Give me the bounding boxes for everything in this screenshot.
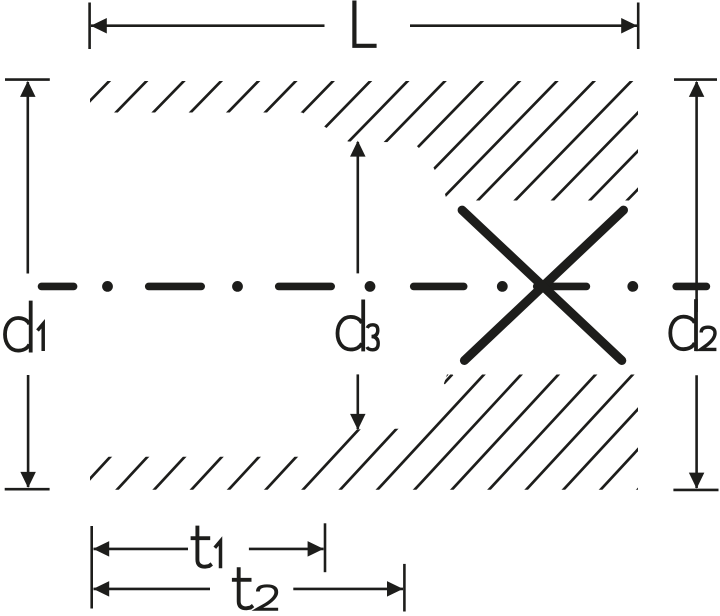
dimension t1: right extension tick <box>324 523 327 572</box>
dimension d2: bottom extension tick <box>673 489 718 492</box>
label L <box>354 1 376 46</box>
dimension t2: right line segment <box>293 588 403 591</box>
dimension d3: down arrowhead <box>350 414 366 430</box>
dimension t1: left arrowhead <box>93 541 109 557</box>
dimension t2: left line segment <box>94 588 211 591</box>
dimension L: left extension tick <box>88 3 91 50</box>
dimension d1: lower line segment <box>27 375 30 487</box>
dimension L: left arrowhead <box>91 18 107 34</box>
dimension t1/t2: shared left extension tick <box>90 526 93 609</box>
dimension d2: down arrowhead <box>689 473 705 489</box>
label d2 <box>670 299 716 351</box>
dimension d1: down arrowhead <box>20 472 35 488</box>
dimension L: right arrowhead <box>621 18 637 34</box>
dimension t2: right arrowhead <box>387 581 403 597</box>
dimension d1: up arrowhead <box>20 81 36 97</box>
hatch top wall <box>0 70 720 215</box>
dimension d2: top extension tick <box>674 78 717 81</box>
dimension d1: bottom extension tick <box>5 488 50 491</box>
dimension t1: right arrowhead <box>308 541 324 557</box>
dimension t1: right line segment <box>249 548 324 551</box>
hatch bottom wall <box>74 360 720 496</box>
centerline dash-dot axis <box>42 283 707 291</box>
dimension t2: right extension tick <box>403 564 406 612</box>
dimension d3: lower line segment <box>356 374 359 429</box>
dimension d1: upper line segment <box>26 82 29 274</box>
dimension d2: upper line segment <box>695 82 698 312</box>
dimension t2: left arrowhead <box>93 581 109 597</box>
dimension d3: up arrowhead <box>350 141 366 157</box>
dimension d2: lower line segment <box>695 375 698 488</box>
dimension d2: up arrowhead <box>689 81 705 97</box>
X square-drive cross <box>462 210 623 360</box>
dimension d1: top extension tick <box>5 78 50 81</box>
label t1 <box>191 526 221 569</box>
label t2 <box>232 567 278 609</box>
label d3 <box>338 300 379 352</box>
dimension d3: upper line segment <box>356 142 359 273</box>
dimension t1: left line segment <box>94 548 189 551</box>
centerline dots <box>102 281 638 292</box>
dimension L: right line segment <box>410 24 637 27</box>
label d1 <box>5 301 43 353</box>
dimension L: left line segment <box>91 24 325 27</box>
dimension L: right extension tick <box>637 3 640 50</box>
